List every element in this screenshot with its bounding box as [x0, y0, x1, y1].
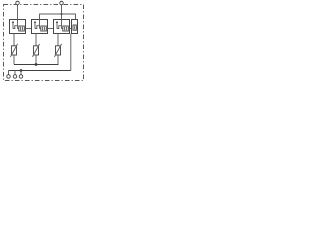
wire: stub to bottom terminal B [14, 71, 16, 75]
bottom terminal B (circle) [13, 75, 17, 79]
wire: F2 internal to GDT [40, 28, 41, 30]
trigger electrode dot F3 [56, 21, 58, 23]
trigger electrode line F3 [56, 23, 58, 28]
bottom terminal C (circle) [19, 75, 23, 79]
varistor MOV3 diagonal [54, 44, 61, 57]
wire: terminal 1 drop to module F1 [17, 5, 19, 20]
wire: link F3 to N-PE box [68, 28, 71, 30]
wire: MOV3 to bus [57, 55, 59, 65]
wire: F3 bottom to varistor MOV3 [57, 34, 59, 46]
trigger electrode line F1 [12, 23, 14, 28]
GDT electrode bars F3 [65, 27, 67, 30]
wire: MOV1 to bus [13, 55, 15, 65]
wire: MOV2 to bus [35, 55, 37, 65]
enclosure border (dash-dot) [4, 5, 84, 81]
wire: F1 internal step (square-wave) [13, 26, 18, 29]
trigger electrode line F2 [34, 23, 36, 28]
wire: link F1 to F2 [24, 28, 31, 30]
wire: F2 bottom to varistor MOV2 [35, 34, 37, 46]
spark-gap module F2 (box) [32, 20, 48, 34]
varistor MOV2 [34, 46, 39, 55]
wire: terminal 2 drop to module F3 [61, 5, 63, 20]
node: junction dot MOV2 on bus [35, 63, 38, 66]
bus: bottom terminal line [9, 70, 71, 72]
wire: link F2 to F3 [46, 28, 53, 30]
spark-gap module F1 (box) [10, 20, 26, 34]
wire: F1 bottom to varistor MOV1 [13, 34, 15, 46]
varistor MOV1 diagonal [10, 44, 17, 57]
trigger electrode dot F2 [34, 21, 36, 23]
N-PE spark gap box (right) [72, 20, 78, 34]
gas discharge tube (GDT) in F2 [41, 26, 47, 31]
GDT electrode bars F1 [21, 27, 23, 30]
gas discharge tube (GDT) in F3 [63, 26, 69, 31]
node: junction dot on jumper at terminal 2 drop [61, 13, 63, 15]
wire: F3 internal entry from box top [61, 20, 63, 29]
wire: top jumper from module F2 to N-PE box [40, 14, 76, 20]
bus: varistor common bus [14, 64, 59, 66]
node: junction dot on bottom line [20, 69, 23, 72]
wire: F2 internal step (square-wave) [35, 26, 40, 29]
wire: F1 internal to GDT [18, 28, 19, 30]
wire: F3 internal to GDT [62, 28, 63, 30]
varistor MOV2 diagonal [32, 44, 39, 57]
spark-gap module F3 (box) [54, 20, 70, 34]
wire: stub to bottom terminal A [8, 71, 10, 75]
wire: N-PE box down to bottom line [70, 34, 72, 71]
wire: F3 internal step (square-wave) [57, 26, 62, 29]
wire: F1 internal entry from box top [17, 20, 19, 29]
gas discharge tube (GDT) in F1 [19, 26, 25, 31]
wire: F2 internal entry from box top [39, 20, 41, 29]
varistor MOV1 [12, 46, 17, 55]
terminal 2 (top right, circle) [60, 1, 64, 5]
terminal 1 (top left, circle) [16, 1, 20, 5]
wire: stub to bottom terminal C [20, 71, 22, 75]
N-PE gap element [73, 25, 76, 30]
trigger electrode dot F1 [12, 21, 14, 23]
N-PE gap electrode bar [74, 26, 76, 30]
GDT electrode bars F2 [43, 27, 45, 30]
bottom terminal A (circle) [7, 75, 11, 79]
varistor MOV3 [56, 46, 61, 55]
